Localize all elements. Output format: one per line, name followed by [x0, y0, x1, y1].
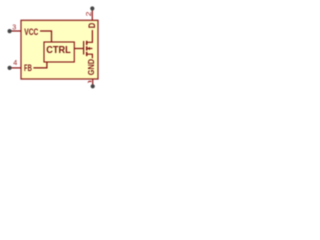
svg-text:D: D: [86, 23, 97, 29]
svg-text:GND: GND: [87, 59, 96, 76]
svg-text:FB: FB: [24, 62, 32, 73]
svg-text:VCC: VCC: [24, 26, 38, 37]
svg-text:3: 3: [12, 23, 16, 32]
svg-text:4: 4: [13, 58, 17, 67]
svg-text:CTRL: CTRL: [46, 45, 70, 56]
svg-text:2: 2: [84, 12, 93, 17]
